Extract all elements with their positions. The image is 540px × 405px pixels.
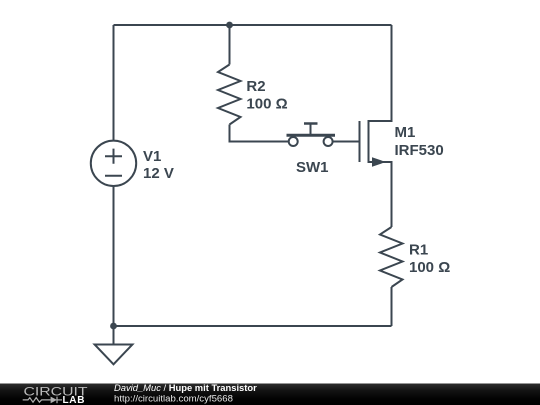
svg-text:IRF530: IRF530 [395,142,444,159]
svg-text:R2: R2 [246,78,265,95]
svg-text:SW1: SW1 [296,159,329,176]
svg-text:LAB: LAB [63,395,86,405]
svg-text:12 V: 12 V [143,165,174,182]
svg-text:V1: V1 [143,148,161,165]
svg-text:David_Muc / Hupe mit Transisto: David_Muc / Hupe mit Transistor [114,382,257,393]
svg-text:100 Ω: 100 Ω [246,96,287,113]
svg-text:M1: M1 [395,124,416,141]
svg-text:100 Ω: 100 Ω [409,259,450,276]
svg-text:http://circuitlab.com/cyf5668: http://circuitlab.com/cyf5668 [114,393,233,404]
svg-text:R1: R1 [409,242,428,259]
